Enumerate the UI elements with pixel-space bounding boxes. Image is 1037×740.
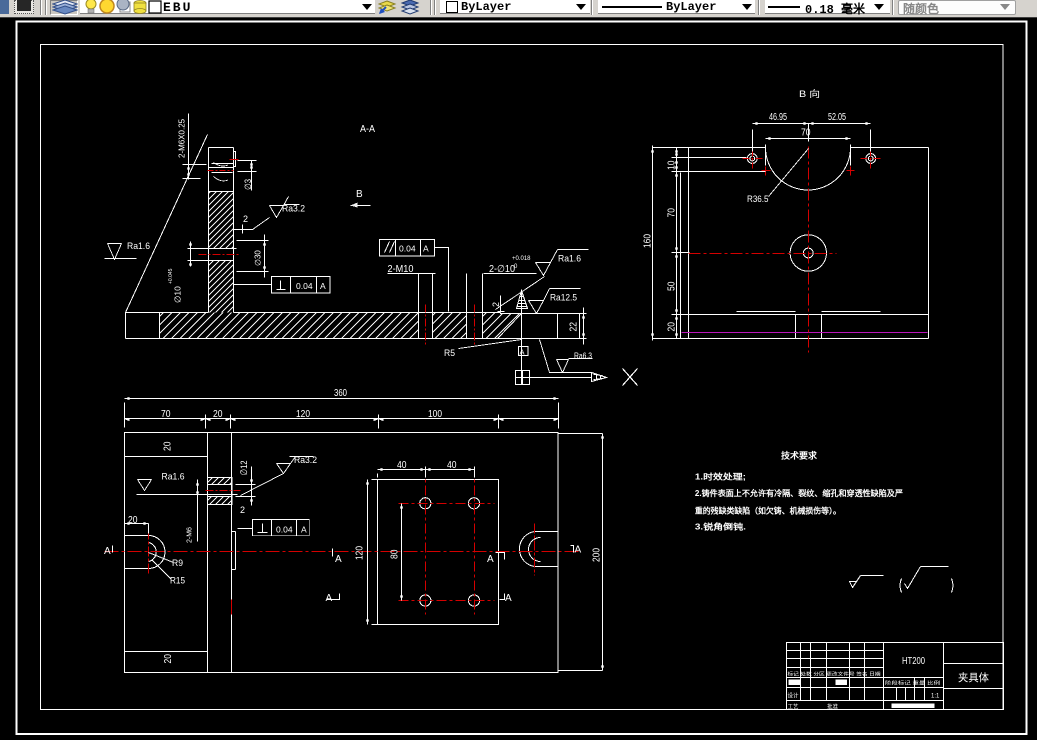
svg-text:100: 100 bbox=[428, 409, 442, 420]
svg-text:0.04: 0.04 bbox=[276, 525, 293, 535]
svg-text:0.04: 0.04 bbox=[399, 244, 416, 254]
svg-text:80: 80 bbox=[390, 549, 401, 559]
svg-text:技术要求: 技术要求 bbox=[781, 451, 818, 461]
svg-text:Ra12.5: Ra12.5 bbox=[550, 293, 577, 304]
svg-text:2: 2 bbox=[491, 302, 501, 307]
svg-text:B: B bbox=[356, 189, 363, 200]
svg-text:工艺: 工艺 bbox=[788, 704, 799, 711]
svg-text:A-A: A-A bbox=[360, 124, 375, 135]
svg-text:200: 200 bbox=[592, 548, 603, 562]
svg-text:设计: 设计 bbox=[788, 692, 799, 700]
svg-text:160: 160 bbox=[643, 234, 654, 248]
svg-text:A: A bbox=[301, 525, 307, 535]
svg-text:52.05: 52.05 bbox=[828, 112, 846, 123]
svg-text:20: 20 bbox=[667, 322, 678, 332]
svg-text:Ra3.2: Ra3.2 bbox=[282, 204, 305, 215]
svg-text:A: A bbox=[326, 593, 333, 604]
svg-text:∅3: ∅3 bbox=[243, 179, 253, 190]
svg-text:70: 70 bbox=[161, 409, 171, 420]
svg-text:22: 22 bbox=[569, 322, 580, 332]
svg-text:0: 0 bbox=[514, 264, 518, 270]
svg-text:标记 处数 分区 更改文件号 签名 日期: 标记 处数 分区 更改文件号 签名 日期 bbox=[788, 671, 881, 678]
svg-text:∅30: ∅30 bbox=[254, 250, 263, 266]
svg-text:70: 70 bbox=[667, 208, 678, 218]
svg-text:120: 120 bbox=[296, 409, 310, 420]
svg-text:Ra3.2: Ra3.2 bbox=[294, 455, 317, 466]
svg-text:2: 2 bbox=[243, 214, 248, 224]
svg-text:∅12: ∅12 bbox=[239, 461, 250, 476]
svg-text:A: A bbox=[487, 554, 494, 565]
svg-text:Ra1.6: Ra1.6 bbox=[558, 254, 581, 265]
svg-text:2: 2 bbox=[240, 505, 245, 515]
svg-text:2-M10: 2-M10 bbox=[388, 264, 414, 275]
svg-text:50: 50 bbox=[667, 281, 678, 291]
svg-text:3.锐角倒钝.: 3.锐角倒钝. bbox=[695, 522, 746, 532]
svg-text:360: 360 bbox=[334, 388, 347, 399]
svg-text:A: A bbox=[505, 593, 512, 604]
svg-text:夹具体: 夹具体 bbox=[958, 671, 989, 684]
svg-text:HT200: HT200 bbox=[902, 656, 925, 667]
svg-text:批准: 批准 bbox=[827, 703, 838, 711]
svg-text:40: 40 bbox=[397, 460, 407, 471]
svg-text:1.时效处理;: 1.时效处理; bbox=[695, 472, 746, 482]
svg-text:+0.018: +0.018 bbox=[512, 256, 531, 262]
svg-text:0.04: 0.04 bbox=[296, 281, 313, 291]
svg-text:2-∅10: 2-∅10 bbox=[489, 264, 515, 275]
svg-text:40: 40 bbox=[447, 460, 457, 471]
svg-text:+0.045: +0.045 bbox=[168, 268, 174, 284]
svg-text:A: A bbox=[423, 244, 429, 254]
svg-text:阶段标记 重量 比例: 阶段标记 重量 比例 bbox=[885, 680, 940, 687]
svg-text:R36.5: R36.5 bbox=[747, 194, 769, 205]
svg-text:A: A bbox=[575, 545, 582, 556]
svg-text:重的残缺类缺陷（如欠铸、机械损伤等）。: 重的残缺类缺陷（如欠铸、机械损伤等）。 bbox=[695, 506, 841, 516]
svg-text:A: A bbox=[335, 554, 342, 565]
svg-text:A: A bbox=[320, 281, 326, 291]
svg-text:R5: R5 bbox=[444, 348, 455, 359]
svg-text:R15: R15 bbox=[170, 576, 185, 587]
svg-text:2-M6: 2-M6 bbox=[187, 527, 194, 543]
svg-text:20: 20 bbox=[163, 654, 174, 664]
svg-text:A: A bbox=[104, 546, 111, 557]
svg-text:R9: R9 bbox=[172, 558, 183, 569]
svg-text:Ra1.6: Ra1.6 bbox=[127, 241, 150, 252]
svg-text:B 向: B 向 bbox=[799, 88, 820, 99]
svg-text:Ra1.6: Ra1.6 bbox=[162, 472, 185, 483]
svg-text:1:1: 1:1 bbox=[931, 694, 940, 700]
svg-text:20: 20 bbox=[213, 409, 223, 420]
svg-text:70: 70 bbox=[801, 128, 811, 139]
svg-text:Ra6.3: Ra6.3 bbox=[574, 351, 592, 361]
svg-text:A: A bbox=[520, 348, 525, 357]
svg-text:20: 20 bbox=[163, 441, 174, 451]
svg-text:2.铸件表面上不允许有冷隔、裂纹、缩孔和穿透性缺陷及严: 2.铸件表面上不允许有冷隔、裂纹、缩孔和穿透性缺陷及严 bbox=[695, 488, 903, 498]
svg-text:120: 120 bbox=[355, 546, 366, 560]
svg-text:46.95: 46.95 bbox=[769, 112, 787, 123]
svg-text:2-M6X0.25: 2-M6X0.25 bbox=[178, 118, 187, 158]
svg-text:∅10: ∅10 bbox=[173, 286, 183, 303]
